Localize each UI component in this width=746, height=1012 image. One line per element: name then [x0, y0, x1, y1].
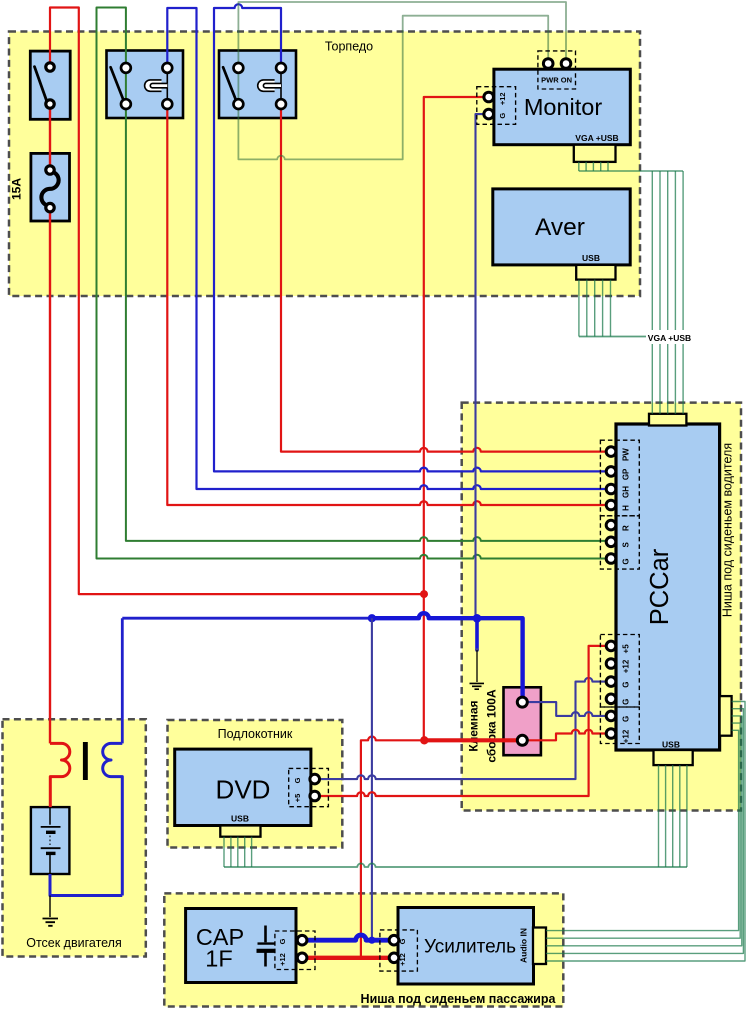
svg-text:GP: GP	[622, 468, 631, 480]
region Торпедо (dashboard zone)	[9, 32, 640, 297]
wire navy : monitor G down to ground bus	[476, 114, 489, 618]
switch S1 terminals	[46, 63, 54, 71]
relay terminals	[121, 63, 131, 73]
wire blue : DVD G over to PCCar G riser	[315, 678, 608, 779]
svg-text:+12: +12	[498, 92, 507, 105]
region Ниша под сиденьем пассажира (passenger seat niche zone)	[164, 893, 563, 1006]
fuse F1 symbol	[41, 172, 58, 207]
region Отсек двигателя (engine bay zone)	[3, 719, 146, 956]
wire thick blue : CAP G to amplifier G	[302, 935, 394, 940]
label VGA +USB mid-right	[646, 330, 693, 344]
junction red feed riser x switch feed	[420, 590, 428, 598]
ground symbol GND2 (engine bay)	[43, 919, 59, 926]
svg-text:+12: +12	[278, 953, 287, 966]
wire sage : relay K2 top-left up over to monitor PWR-ON right pin	[238, 2, 566, 104]
switch S1 box	[30, 51, 70, 119]
relay contact arm	[223, 67, 237, 101]
svg-text:USB: USB	[231, 814, 249, 824]
ground stub engine bay	[49, 896, 51, 918]
svg-text:Ниша под сиденьем водителя: Ниша под сиденьем водителя	[721, 443, 735, 617]
monitor VGA+USB connector tab	[574, 145, 616, 162]
PCCar pin group dashed box R..G	[600, 516, 639, 569]
svg-text:+5: +5	[622, 644, 631, 654]
wire bundle Aver USB down to VGA+USB junction label	[578, 280, 580, 337]
switch S1 contact symbol	[35, 67, 47, 101]
wire bundle PCCar bottom USB to DVD USB	[658, 765, 660, 867]
region Ниша под сиденьем водителя (driver seat niche zone)	[462, 403, 741, 811]
ground symbol GND1 (near terminal block)	[470, 683, 485, 689]
svg-text:Audio IN: Audio IN	[519, 928, 529, 963]
svg-text:G: G	[622, 716, 631, 722]
svg-text:+12: +12	[622, 729, 631, 743]
svg-text:DVD: DVD	[216, 775, 271, 805]
svg-text:PWR ON: PWR ON	[541, 76, 572, 85]
wire red : fuse bottom down to engine bay red choke	[49, 208, 51, 744]
fuse F1 15A box	[31, 153, 70, 221]
svg-text:Усилитель: Усилитель	[424, 937, 516, 958]
CAP G +12 terminals	[297, 935, 307, 945]
svg-text:PCCar: PCCar	[646, 548, 674, 625]
svg-text:1F: 1F	[205, 946, 232, 972]
junction +12 bus x monitor/switch feed riser	[420, 736, 428, 744]
terminal block 100A (pink)	[504, 687, 541, 755]
wire blue : relay K1 top-right loop down to PCCar GH	[167, 8, 608, 489]
svg-text:S: S	[622, 541, 631, 547]
svg-text:G: G	[398, 938, 407, 944]
svg-text:USB: USB	[662, 740, 680, 750]
wire red battery+ : fuse top to switch S1 bottom	[49, 104, 51, 170]
svg-text:G: G	[498, 113, 507, 119]
monitor U1 box	[494, 69, 630, 145]
svg-text:G: G	[622, 681, 631, 687]
Aver U2 box	[493, 189, 630, 265]
relay lamp branch line	[280, 68, 282, 104]
PCCar right Audio connector tab	[720, 696, 732, 736]
wire red : relay K2 bottom-right down to PCCar PW	[281, 104, 608, 452]
wire thick blue ground bus from battery via blue choke to terminal block	[122, 617, 372, 620]
svg-text:15A: 15A	[9, 178, 23, 200]
svg-text:Торпедо: Торпедо	[325, 40, 373, 54]
amplifier pin dashed box	[380, 930, 418, 971]
svg-text:Aver: Aver	[535, 214, 585, 241]
PCCar pin group dashed box +5..G	[600, 635, 639, 708]
amplifier G +12 terminals	[389, 935, 399, 945]
svg-text:G: G	[622, 558, 631, 564]
battery GB1 symbol	[49, 807, 51, 825]
ground stub from ground bus	[475, 618, 479, 650]
relay lamp symbol	[145, 80, 162, 91]
wire thick red : CAP +12 to amplifier +12	[302, 956, 394, 960]
wire red : switch S1 top loop over to feed riser	[50, 8, 424, 595]
PCCar left terminals +5 +12 G G G +12	[606, 641, 616, 651]
svg-text:VGA +USB: VGA +USB	[648, 333, 691, 343]
svg-text:PW: PW	[622, 448, 631, 461]
wire blue : relay K2 top-right loop down to PCCar GP	[214, 4, 608, 471]
junction ground bus x amp ground riser	[368, 614, 376, 622]
relay K1 box	[107, 51, 184, 119]
svg-text:сборка 100А: сборка 100А	[485, 689, 499, 763]
wire dark green : relay K1 bottom-left down to PCCar S	[126, 104, 608, 541]
battery GB1 box	[31, 807, 70, 874]
svg-text:G: G	[622, 699, 631, 705]
svg-text:R: R	[622, 525, 631, 531]
wire red : DVD +5 over to PCCar +5 riser	[315, 646, 608, 796]
DVD U4 box	[175, 749, 311, 825]
CAP pin dashed box	[275, 931, 315, 970]
svg-text:Подлокотник: Подлокотник	[218, 727, 293, 741]
svg-text:USB: USB	[582, 253, 600, 263]
wire dark green : relay K1 coil top-left loop down to PCCar G	[97, 8, 609, 559]
capacitor CAP 1F box	[186, 909, 296, 983]
svg-text:Отсек двигателя: Отсек двигателя	[26, 936, 122, 950]
DVD pin dashed box	[289, 768, 329, 806]
wire bundle PCCar right Audio connector to amplifier Audio IN	[546, 702, 745, 962]
svg-text:Ниша под сиденьем пассажира: Ниша под сиденьем пассажира	[361, 992, 557, 1006]
PCCar pin group dashed box PW..H	[600, 440, 639, 516]
svg-text:H: H	[622, 505, 631, 511]
terminal block terminals	[517, 697, 527, 707]
svg-text:GH: GH	[622, 486, 631, 498]
monitor +12/G dashed pin box	[477, 87, 516, 125]
monitor +12 / G terminals	[484, 92, 494, 102]
svg-text:G: G	[278, 938, 287, 944]
region Подлокотник (armrest zone)	[168, 720, 343, 848]
firewall pass-through bar	[83, 742, 88, 780]
fuse F1 terminals	[46, 166, 54, 174]
wire bundle monitor VGA+USB down right side to PCCar top connector	[578, 162, 580, 171]
PCCar pin group dashed box G,+12	[600, 707, 639, 744]
monitor PWR ON dashed pin box	[538, 51, 576, 89]
wire blue : terminal block top to PCCar G pin	[522, 702, 608, 716]
PCCar bottom USB connector tab	[654, 750, 693, 765]
relay K2 box	[219, 51, 296, 119]
wire red : relay K1 bottom-right down to PCCar H	[167, 104, 608, 505]
junction ground bus x monitor G riser	[473, 614, 482, 623]
svg-text:G: G	[293, 777, 302, 783]
relay lamp symbol	[258, 80, 275, 91]
wire blue riser : ground bus down to amp G / CAP G	[371, 618, 373, 940]
svg-text:+5: +5	[293, 794, 302, 803]
wire blue battery negative to ground corner and to blue choke	[50, 874, 122, 896]
wire blue choke L2 (engine bay)	[103, 743, 123, 895]
capacitor symbol inside CAP box	[264, 926, 267, 943]
DVD G +5 terminals	[310, 774, 320, 784]
relay contact arm	[111, 67, 125, 101]
amplifier Audio IN connector tab	[533, 928, 546, 965]
monitor PWR ON terminals	[543, 59, 553, 69]
amplifier U5 box	[398, 908, 534, 985]
svg-text:+12: +12	[622, 659, 631, 673]
PCCar left terminals PW GP GH H R S G	[606, 447, 616, 457]
relay terminals	[234, 63, 244, 73]
wire sage : relay K2 bottom-left to monitor PWR-ON left pin	[238, 16, 548, 160]
wire thick red +12 bus : amp riser corner to terminal block bottom	[361, 737, 424, 958]
Aver USB connector tab	[576, 265, 615, 280]
DVD USB connector tab	[220, 826, 260, 837]
svg-text:Monitor: Monitor	[524, 94, 603, 120]
svg-text:+12: +12	[398, 953, 407, 966]
junction CAP-amp G x blue riser	[368, 937, 375, 944]
PCCar top VGA+USB connector tab	[649, 414, 686, 426]
PCCar U3 box	[616, 424, 720, 750]
wire red choke L1 (engine bay)	[50, 743, 70, 807]
svg-text:VGA +USB: VGA +USB	[575, 133, 618, 143]
wire red feed riser : monitor +12 down to thick red bus junction	[424, 97, 489, 740]
wire red : terminal block bottom to PCCar +12 pin	[522, 730, 608, 741]
svg-text:Клемная: Клемная	[467, 700, 481, 751]
relay lamp branch line	[166, 68, 168, 104]
